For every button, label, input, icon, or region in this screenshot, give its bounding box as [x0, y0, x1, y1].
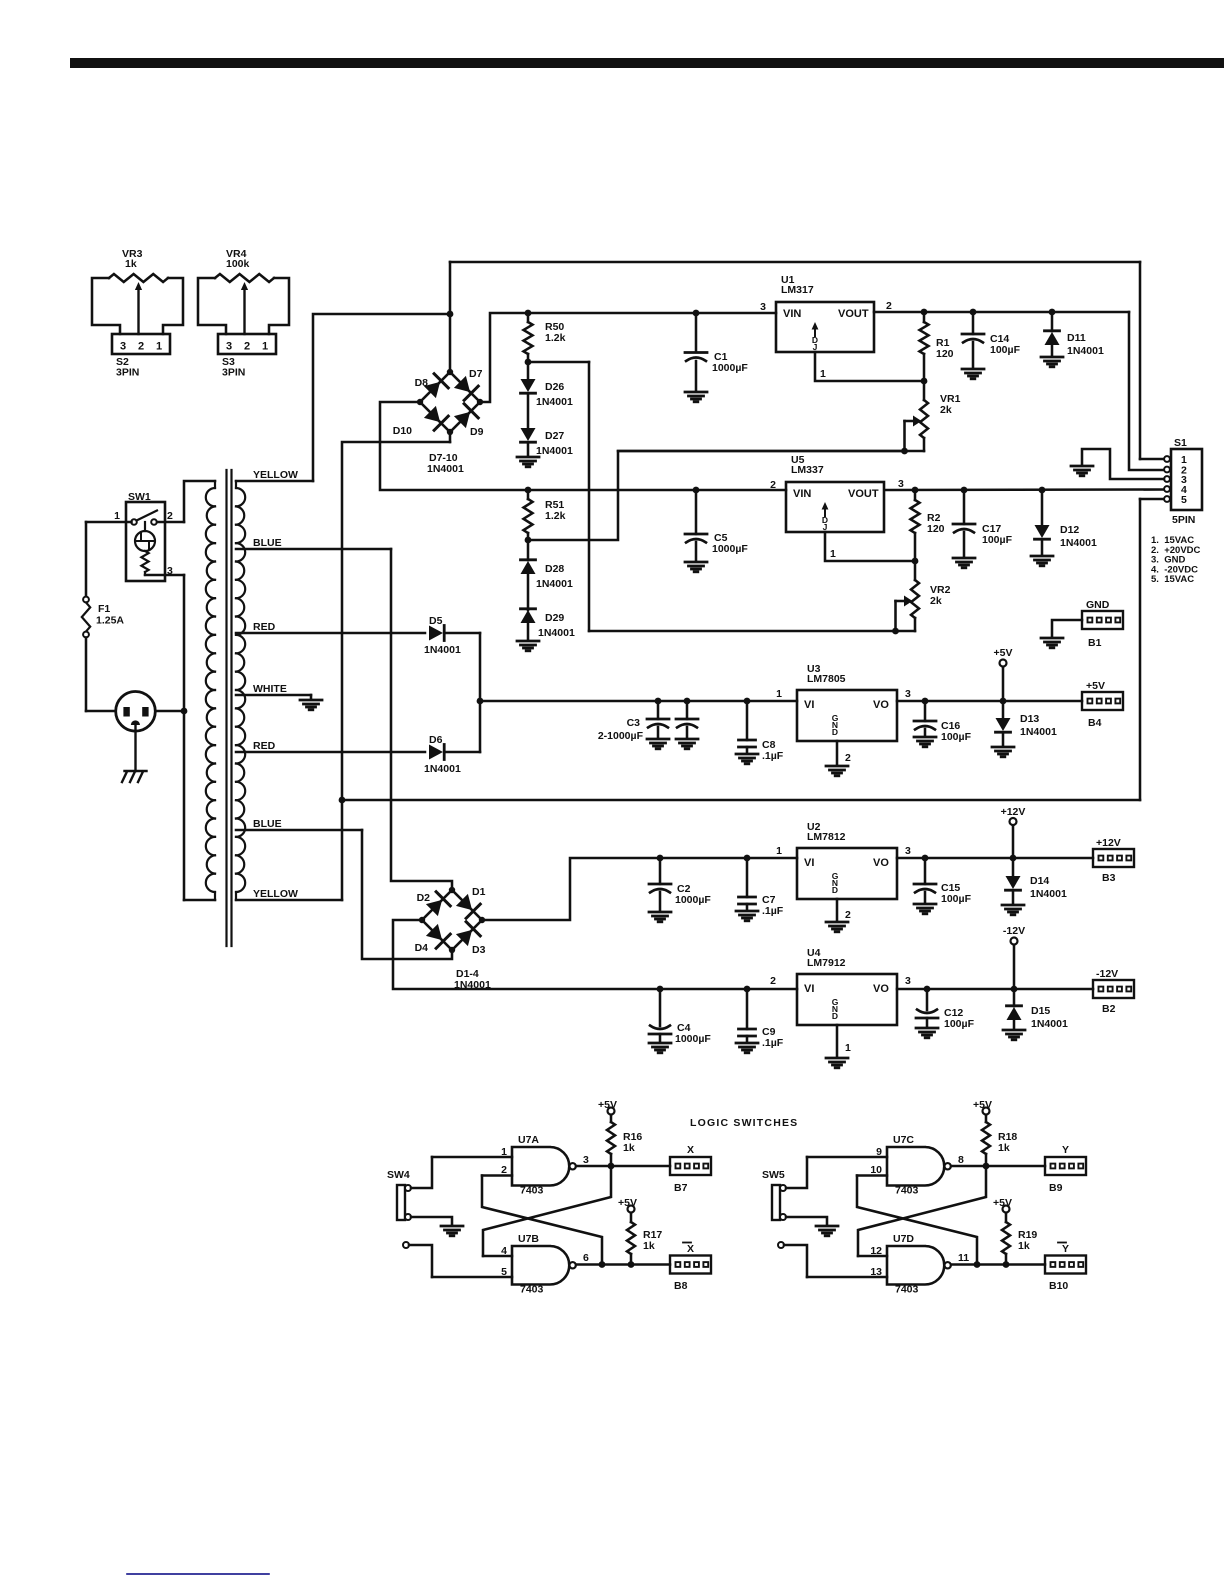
- svg-text:J: J: [823, 522, 828, 532]
- svg-text:D15: D15: [1031, 1005, 1050, 1017]
- svg-text:100µF: 100µF: [941, 893, 972, 905]
- svg-text:D28: D28: [545, 563, 564, 575]
- svg-text:5: 5: [1181, 494, 1187, 506]
- svg-text:3: 3: [905, 845, 911, 857]
- svg-text:13: 13: [870, 1266, 882, 1278]
- svg-text:F1: F1: [98, 603, 110, 615]
- svg-text:-12V: -12V: [1096, 968, 1118, 980]
- svg-text:U7D: U7D: [893, 1233, 914, 1245]
- svg-text:3PIN: 3PIN: [116, 367, 139, 379]
- svg-text:1000µF: 1000µF: [675, 1033, 711, 1045]
- svg-text:D29: D29: [545, 612, 564, 624]
- svg-text:S1: S1: [1174, 437, 1187, 449]
- svg-text:1N4001: 1N4001: [1060, 537, 1097, 549]
- svg-text:D7: D7: [469, 368, 483, 380]
- svg-text:B1: B1: [1088, 637, 1102, 649]
- svg-text:1N4001: 1N4001: [424, 644, 461, 656]
- svg-text:1N4001: 1N4001: [1067, 345, 1104, 357]
- svg-text:1000µF: 1000µF: [675, 894, 711, 906]
- svg-text:2: 2: [886, 300, 892, 312]
- svg-text:+5V: +5V: [993, 1197, 1012, 1209]
- svg-text:SW4: SW4: [387, 1169, 410, 1181]
- svg-text:D4: D4: [415, 942, 429, 954]
- svg-text:B7: B7: [674, 1182, 688, 1194]
- svg-text:D10: D10: [393, 425, 412, 437]
- svg-text:+5V: +5V: [1086, 680, 1105, 692]
- svg-text:.1µF: .1µF: [762, 1037, 784, 1049]
- svg-text:RED: RED: [253, 740, 276, 752]
- svg-text:1: 1: [262, 341, 268, 353]
- svg-text:C3: C3: [627, 717, 641, 729]
- svg-text:B10: B10: [1049, 1280, 1068, 1292]
- svg-text:7403: 7403: [520, 1185, 544, 1197]
- svg-text:D27: D27: [545, 430, 564, 442]
- svg-text:VI: VI: [804, 983, 814, 995]
- svg-text:1N4001: 1N4001: [424, 763, 461, 775]
- svg-text:D2: D2: [417, 892, 431, 904]
- svg-text:+12V: +12V: [1096, 837, 1121, 849]
- svg-text:YELLOW: YELLOW: [253, 888, 298, 900]
- svg-text:D: D: [832, 885, 838, 895]
- svg-text:1000µF: 1000µF: [712, 543, 748, 555]
- svg-text:B3: B3: [1102, 872, 1116, 884]
- svg-text:100µF: 100µF: [944, 1018, 975, 1030]
- svg-text:VI: VI: [804, 857, 814, 869]
- svg-text:LM7805: LM7805: [807, 673, 846, 685]
- svg-text:1: 1: [114, 510, 120, 522]
- svg-text:120: 120: [927, 523, 945, 535]
- svg-text:Y: Y: [1062, 1243, 1069, 1255]
- svg-text:3: 3: [583, 1154, 589, 1166]
- svg-text:1N4001: 1N4001: [536, 396, 573, 408]
- svg-text:+5V: +5V: [618, 1197, 637, 1209]
- svg-text:2: 2: [770, 479, 776, 491]
- svg-text:VOUT: VOUT: [838, 308, 869, 320]
- svg-text:1.25A: 1.25A: [96, 615, 124, 627]
- svg-text:.1µF: .1µF: [762, 750, 784, 762]
- svg-text:1k: 1k: [998, 1142, 1010, 1154]
- svg-text:1: 1: [156, 341, 162, 353]
- svg-text:1N4001: 1N4001: [536, 445, 573, 457]
- svg-text:12: 12: [870, 1245, 882, 1257]
- svg-text:D5: D5: [429, 615, 443, 627]
- svg-text:WHITE: WHITE: [253, 683, 287, 695]
- svg-text:1: 1: [776, 688, 782, 700]
- svg-text:2: 2: [501, 1164, 507, 1176]
- svg-text:SW5: SW5: [762, 1169, 785, 1181]
- svg-text:1: 1: [845, 1042, 851, 1054]
- svg-text:1N4001: 1N4001: [1031, 1018, 1068, 1030]
- svg-text:3PIN: 3PIN: [222, 367, 245, 379]
- svg-text:D: D: [832, 727, 838, 737]
- svg-text:B2: B2: [1102, 1003, 1116, 1015]
- svg-text:SW1: SW1: [128, 491, 151, 503]
- svg-text:1: 1: [501, 1146, 507, 1158]
- svg-text:VOUT: VOUT: [848, 488, 879, 500]
- svg-text:1k: 1k: [1018, 1240, 1030, 1252]
- svg-text:1N4001: 1N4001: [536, 578, 573, 590]
- svg-text:120: 120: [936, 348, 954, 360]
- svg-text:1N4001: 1N4001: [538, 627, 575, 639]
- svg-text:100µF: 100µF: [990, 344, 1021, 356]
- svg-text:2-1000µF: 2-1000µF: [598, 730, 644, 742]
- svg-text:3: 3: [120, 341, 126, 353]
- svg-text:B4: B4: [1088, 717, 1102, 729]
- svg-text:B9: B9: [1049, 1182, 1063, 1194]
- svg-text:D12: D12: [1060, 524, 1079, 536]
- svg-text:1N4001: 1N4001: [1030, 888, 1067, 900]
- svg-text:3: 3: [226, 341, 232, 353]
- svg-text:D13: D13: [1020, 713, 1039, 725]
- svg-text:D6: D6: [429, 734, 443, 746]
- svg-text:3: 3: [905, 688, 911, 700]
- svg-text:8: 8: [958, 1154, 964, 1166]
- svg-text:VO: VO: [873, 857, 889, 869]
- svg-text:U7A: U7A: [518, 1134, 539, 1146]
- svg-text:1N4001: 1N4001: [1020, 726, 1057, 738]
- svg-text:J: J: [813, 342, 818, 352]
- svg-text:3: 3: [760, 301, 766, 313]
- svg-text:10: 10: [870, 1164, 882, 1176]
- svg-text:.1µF: .1µF: [762, 905, 784, 917]
- svg-text:2: 2: [845, 909, 851, 921]
- svg-text:5PIN: 5PIN: [1172, 514, 1195, 526]
- svg-text:100k: 100k: [226, 258, 250, 270]
- svg-text:D9: D9: [470, 426, 484, 438]
- svg-text:X: X: [687, 1144, 694, 1156]
- svg-text:-12V: -12V: [1003, 925, 1025, 937]
- svg-text:LM7812: LM7812: [807, 831, 846, 843]
- svg-text:B8: B8: [674, 1280, 688, 1292]
- svg-text:Y: Y: [1062, 1144, 1069, 1156]
- svg-text:1k: 1k: [623, 1142, 635, 1154]
- svg-text:D1: D1: [472, 886, 486, 898]
- svg-text:YELLOW: YELLOW: [253, 469, 298, 481]
- svg-text:11: 11: [958, 1252, 969, 1264]
- svg-text:D: D: [832, 1011, 838, 1021]
- svg-text:1: 1: [820, 368, 826, 380]
- svg-text:5. 15VAC: 5. 15VAC: [1151, 574, 1194, 585]
- svg-text:GND: GND: [1086, 599, 1110, 611]
- svg-text:2k: 2k: [930, 595, 942, 607]
- svg-text:+5V: +5V: [973, 1099, 992, 1111]
- svg-text:D8: D8: [415, 377, 429, 389]
- svg-text:2k: 2k: [940, 404, 952, 416]
- svg-text:1: 1: [830, 548, 836, 560]
- svg-text:U7C: U7C: [893, 1134, 914, 1146]
- svg-text:1N4001: 1N4001: [427, 463, 464, 475]
- svg-text:LOGIC SWITCHES: LOGIC SWITCHES: [690, 1117, 798, 1129]
- svg-text:X: X: [687, 1243, 694, 1255]
- svg-text:2: 2: [244, 341, 250, 353]
- svg-text:+12V: +12V: [1001, 806, 1026, 818]
- svg-text:3: 3: [898, 478, 904, 490]
- svg-text:100µF: 100µF: [941, 731, 972, 743]
- svg-text:LM7912: LM7912: [807, 957, 846, 969]
- svg-text:1k: 1k: [125, 258, 137, 270]
- svg-text:BLUE: BLUE: [253, 818, 282, 830]
- svg-text:VIN: VIN: [793, 488, 811, 500]
- svg-text:VI: VI: [804, 699, 814, 711]
- svg-text:2: 2: [167, 510, 173, 522]
- svg-text:7403: 7403: [895, 1284, 919, 1296]
- svg-text:6: 6: [583, 1252, 589, 1264]
- svg-text:RED: RED: [253, 621, 276, 633]
- svg-text:2: 2: [138, 341, 144, 353]
- svg-text:100µF: 100µF: [982, 534, 1013, 546]
- svg-text:+5V: +5V: [598, 1099, 617, 1111]
- svg-text:9: 9: [876, 1146, 882, 1158]
- svg-text:3: 3: [905, 975, 911, 987]
- svg-text:4: 4: [501, 1245, 507, 1257]
- svg-text:1k: 1k: [643, 1240, 655, 1252]
- svg-text:1.2k: 1.2k: [545, 510, 566, 522]
- svg-text:5: 5: [501, 1266, 507, 1278]
- svg-text:VIN: VIN: [783, 308, 801, 320]
- svg-text:D26: D26: [545, 381, 564, 393]
- svg-text:D3: D3: [472, 944, 486, 956]
- svg-text:1.2k: 1.2k: [545, 332, 566, 344]
- svg-text:D14: D14: [1030, 875, 1049, 887]
- svg-text:+5V: +5V: [994, 647, 1013, 659]
- svg-text:1000µF: 1000µF: [712, 362, 748, 374]
- svg-text:2: 2: [845, 752, 851, 764]
- svg-text:D11: D11: [1067, 332, 1086, 344]
- svg-text:LM317: LM317: [781, 284, 814, 296]
- svg-text:7403: 7403: [520, 1284, 544, 1296]
- svg-text:U7B: U7B: [518, 1233, 539, 1245]
- svg-text:2: 2: [770, 975, 776, 987]
- svg-text:VO: VO: [873, 983, 889, 995]
- svg-text:LM337: LM337: [791, 464, 824, 476]
- svg-text:VO: VO: [873, 699, 889, 711]
- svg-text:BLUE: BLUE: [253, 537, 282, 549]
- svg-text:7403: 7403: [895, 1185, 919, 1197]
- svg-text:1: 1: [776, 845, 782, 857]
